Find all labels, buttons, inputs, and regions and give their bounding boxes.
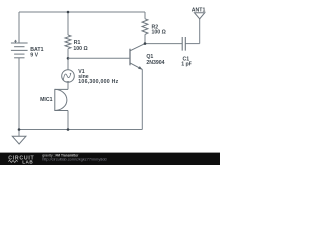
svg-text:LAB: LAB [22, 159, 33, 164]
svg-text:ANT1: ANT1 [192, 8, 206, 14]
svg-text:106,300,000 Hz: 106,300,000 Hz [78, 79, 118, 85]
svg-text:1 pF: 1 pF [181, 61, 192, 67]
svg-text:9 V: 9 V [30, 53, 38, 59]
svg-text:MIC1: MIC1 [40, 97, 53, 103]
svg-text:http://circuitlab.com/c/kgkz77: http://circuitlab.com/c/kgkz77/mmy8dd [42, 158, 106, 162]
svg-text:100 Ω: 100 Ω [152, 30, 166, 36]
svg-text:100 Ω: 100 Ω [73, 46, 87, 52]
svg-text:2N3904: 2N3904 [146, 60, 164, 66]
